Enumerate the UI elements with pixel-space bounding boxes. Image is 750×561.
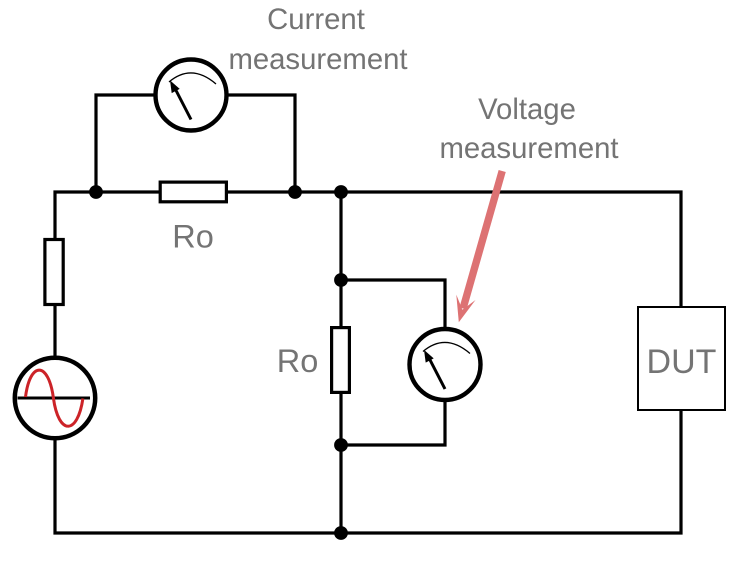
node: junction top of middle branch	[334, 185, 348, 199]
wire: voltmeter branch top	[341, 280, 445, 329]
svg-text:DUT: DUT	[647, 343, 717, 381]
node: junction voltmeter branch top	[334, 273, 348, 287]
DUT box	[638, 307, 725, 410]
wire: left branch between resistor and AC source	[53, 304, 56, 359]
wire: middle branch upper segment	[339, 192, 342, 327]
wire: current-meter loop left side	[96, 95, 157, 192]
label: Voltage measurement	[439, 93, 618, 165]
annotation arrow (red, pointing to voltmeter)	[456, 171, 502, 322]
wire: voltmeter branch bottom	[341, 401, 445, 445]
AC source V1	[15, 358, 95, 438]
label: Current measurement	[228, 3, 407, 76]
node: junction left of series resistor	[89, 185, 103, 199]
svg-text:Ro: Ro	[277, 343, 319, 379]
svg-text:Voltage: Voltage	[478, 93, 576, 126]
svg-text:Ro: Ro	[172, 218, 214, 254]
svg-text:measurement: measurement	[439, 132, 618, 165]
wire: bottom rail with right and left corner stubs	[55, 409, 681, 533]
node: junction right of series resistor	[288, 185, 302, 199]
voltmeter M2 (voltage measurement meter)	[410, 329, 481, 400]
ammeter M1 (current measurement meter)	[156, 60, 227, 131]
resistor Ro (shunt, vertical)	[332, 328, 350, 393]
resistor (left, unlabeled)	[45, 240, 63, 305]
svg-text:Current: Current	[267, 3, 365, 36]
resistor Ro (series, horizontal)	[160, 182, 226, 202]
node: junction voltmeter branch bottom	[334, 438, 348, 452]
svg-text:measurement: measurement	[228, 43, 407, 76]
wire: current-meter loop right side	[225, 95, 295, 192]
wire: top rail with left and right corner stubs	[55, 192, 681, 308]
wire: middle branch lower segment	[339, 393, 342, 533]
node: junction bottom rail	[334, 526, 348, 540]
